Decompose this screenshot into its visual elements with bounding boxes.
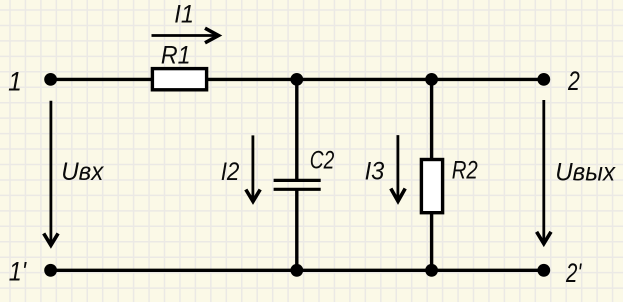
wire top: node 1 to node 2 <box>51 78 544 81</box>
junction node 2 <box>537 73 550 86</box>
svg-text:1': 1' <box>9 257 27 287</box>
resistor R2 <box>421 160 442 213</box>
current arrow I3 <box>391 135 405 201</box>
current arrow I1 <box>152 28 219 43</box>
wire: C2 branch upper segment <box>295 79 298 180</box>
capacitor C2 <box>274 180 321 189</box>
wire: R2 branch upper segment <box>430 79 433 159</box>
junction at C2 top <box>290 73 303 86</box>
svg-text:1: 1 <box>8 66 22 96</box>
svg-text:I1: I1 <box>174 1 194 29</box>
svg-text:Uвых: Uвых <box>555 158 616 186</box>
voltage arrow Uвых <box>537 100 551 244</box>
voltage arrow Uвх <box>44 101 58 246</box>
svg-text:2: 2 <box>567 66 580 96</box>
junction at R2 top <box>425 73 438 86</box>
junction at R2 bottom <box>425 264 438 277</box>
current arrow I2 <box>246 135 260 201</box>
svg-text:Uвх: Uвх <box>61 158 105 186</box>
svg-text:R2: R2 <box>452 157 478 185</box>
svg-text:I3: I3 <box>365 158 385 186</box>
junction node 2' <box>537 264 550 277</box>
wire: C2 branch lower segment <box>295 189 298 270</box>
wire: R2 branch lower segment <box>430 213 433 270</box>
resistor R1 <box>152 69 206 90</box>
svg-text:R1: R1 <box>161 42 191 70</box>
junction at C2 bottom <box>290 264 303 277</box>
svg-text:C2: C2 <box>310 147 335 175</box>
junction node 1' <box>44 264 57 277</box>
wire bottom: node 1' to node 2' <box>51 269 544 272</box>
svg-text:2': 2' <box>565 258 582 288</box>
junction node 1 <box>44 73 57 86</box>
svg-text:I2: I2 <box>221 158 240 186</box>
